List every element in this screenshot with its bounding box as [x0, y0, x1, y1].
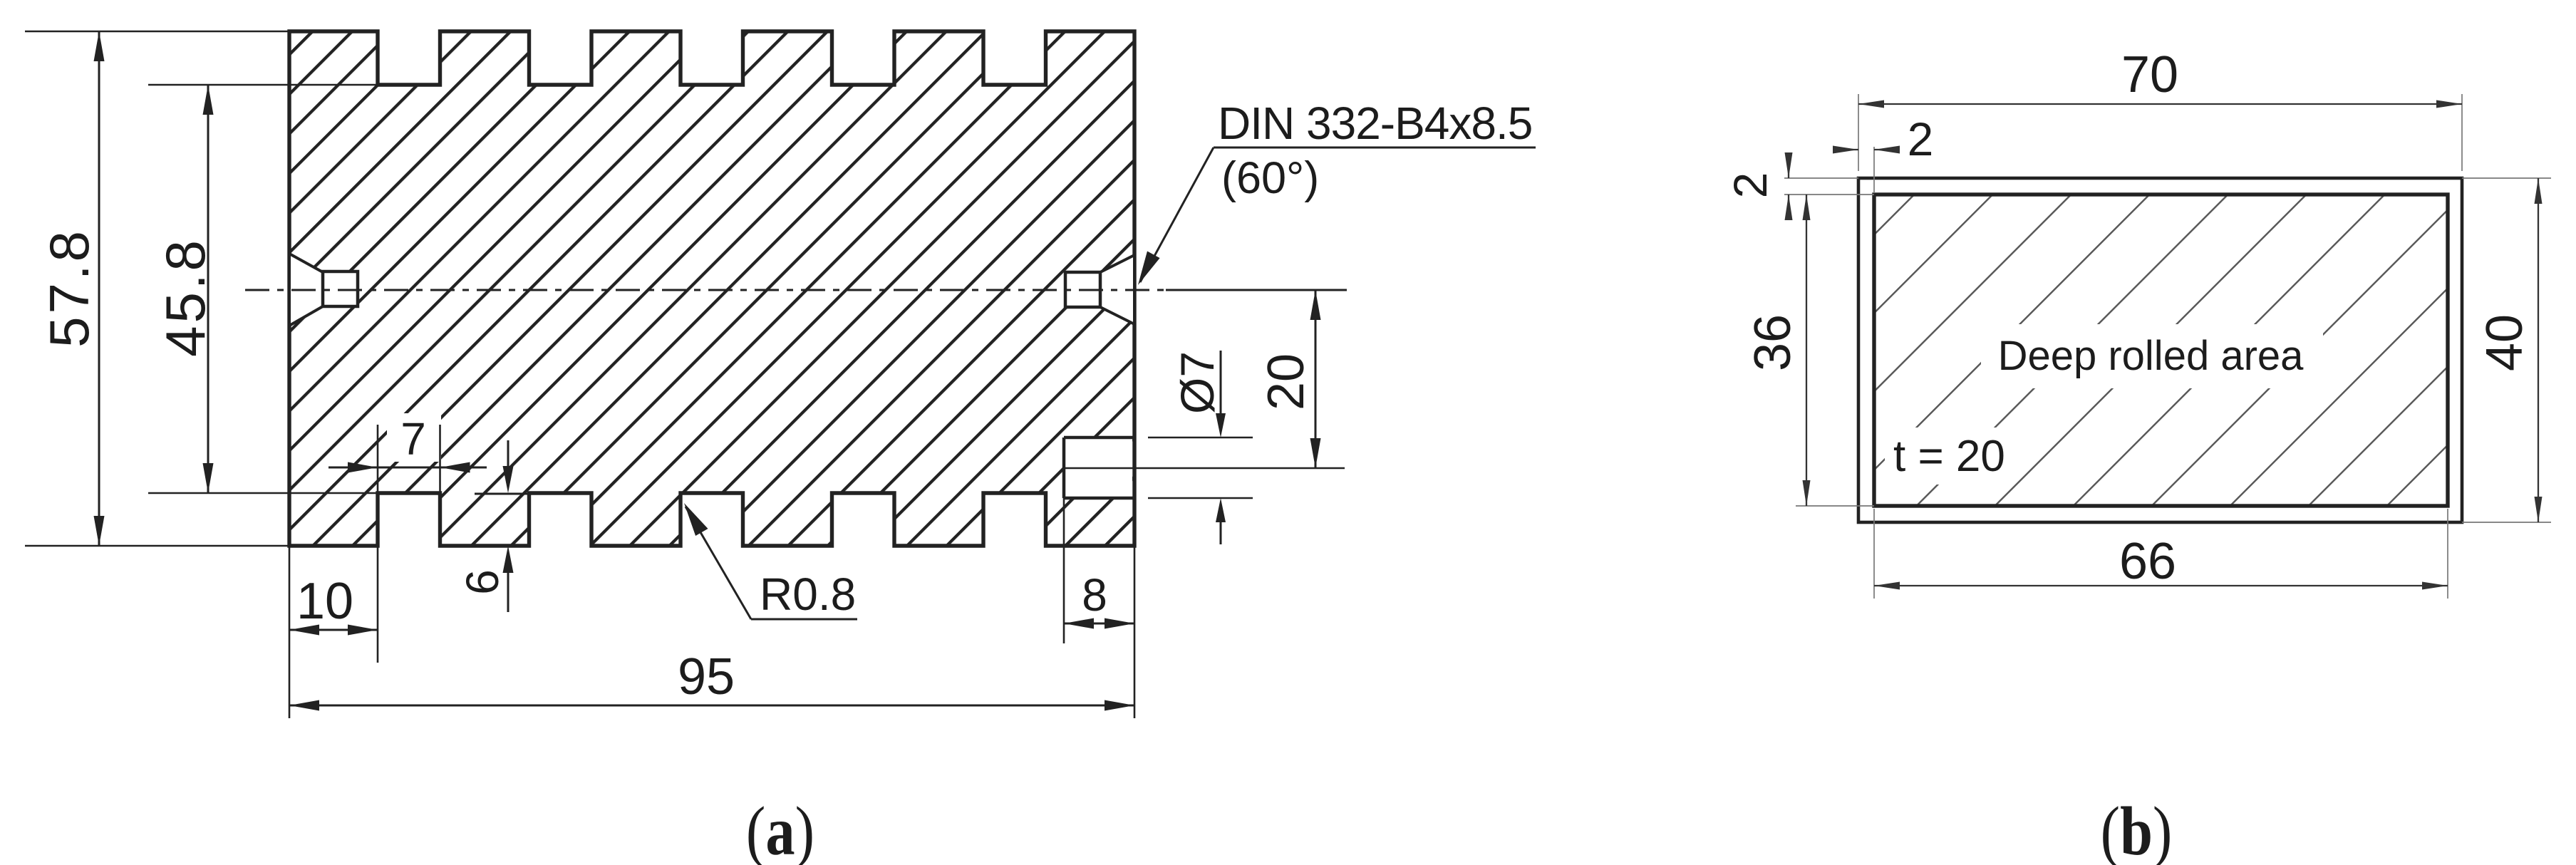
svg-text:20: 20 [1258, 353, 1315, 410]
svg-text:10: 10 [296, 573, 353, 630]
svg-text:2: 2 [1724, 172, 1776, 199]
svg-text:2: 2 [1908, 113, 1934, 165]
svg-text:(b): (b) [2101, 794, 2173, 865]
svg-text:36: 36 [1744, 314, 1801, 371]
svg-text:Ø7: Ø7 [1171, 351, 1224, 414]
svg-text:70: 70 [2121, 46, 2178, 103]
svg-text:6: 6 [457, 569, 508, 595]
svg-text:45.8: 45.8 [154, 237, 217, 357]
svg-text:8: 8 [1082, 569, 1107, 621]
svg-text:40: 40 [2476, 314, 2533, 371]
svg-text:t = 20: t = 20 [1893, 432, 2005, 481]
svg-text:DIN 332-B4x8.5: DIN 332-B4x8.5 [1218, 98, 1532, 149]
svg-text:57.8: 57.8 [38, 228, 100, 348]
svg-text:R0.8: R0.8 [760, 569, 856, 620]
svg-text:Deep rolled area: Deep rolled area [1998, 333, 2305, 379]
svg-text:7: 7 [400, 413, 426, 465]
svg-text:95: 95 [678, 648, 735, 705]
svg-text:(60°): (60°) [1221, 153, 1319, 203]
svg-text:(a): (a) [746, 794, 814, 865]
svg-text:66: 66 [2119, 533, 2176, 590]
